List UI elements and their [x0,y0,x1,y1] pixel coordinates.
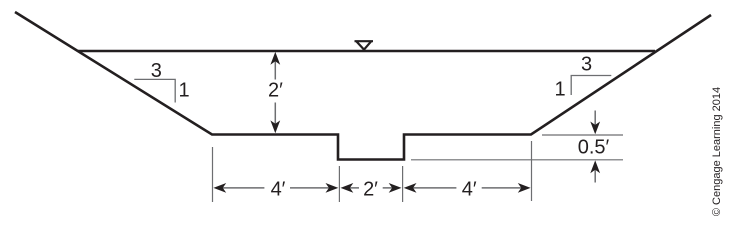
dimension 4ft right: left arrowhead [404,183,417,193]
right slope indicator bracket [571,76,611,96]
svg-text:3: 3 [581,54,592,76]
notch depth 0.5ft: lower tail [594,168,596,182]
notch depth 0.5ft: upper arrowhead [590,122,600,135]
notch depth 0.5ft: upper tail [594,111,596,127]
dimension 4ft left: left arrowhead [213,183,226,193]
dimension 4ft left: tails [222,187,331,189]
dimension 4ft right: tails [412,187,523,189]
svg-text:3: 3 [151,60,162,82]
extension line notch right [402,166,404,202]
water surface line [78,50,655,53]
dimension 2ft mid: left arrowhead [341,183,354,193]
extension line notch left [338,166,340,202]
dimension 2ft mid: right arrowhead [389,183,402,193]
dimension 4ft right: right arrowhead [518,183,531,193]
svg-text:© Cengage Learning 2014: © Cengage Learning 2014 [711,87,723,216]
svg-text:4′: 4′ [462,179,477,201]
svg-text:2′: 2′ [363,179,378,201]
dimension 4ft left: right arrowhead [326,183,339,193]
water surface symbol [355,41,374,49]
svg-text:2′: 2′ [268,80,283,102]
depth dimension 2ft: lower tail [274,103,276,129]
extension line left of 4ft dimension [212,147,214,202]
extension line right of 4ft dimension [531,141,533,201]
dimension 2ft mid: tails [349,187,394,189]
notch depth 0.5ft: lower arrowhead [590,160,600,173]
channel outline [15,12,711,160]
depth dimension 2ft: lower arrowhead [270,120,280,133]
extension line bed level right [542,134,623,136]
depth dimension 2ft: upper tail [274,57,276,80]
svg-text:1: 1 [554,78,565,100]
left slope indicator bracket [134,79,175,102]
extension line notch bottom level right [411,159,623,161]
depth dimension 2ft: upper arrowhead [270,52,280,65]
svg-text:4′: 4′ [271,179,286,201]
svg-text:0.5′: 0.5′ [578,137,610,159]
svg-text:1: 1 [178,80,189,102]
